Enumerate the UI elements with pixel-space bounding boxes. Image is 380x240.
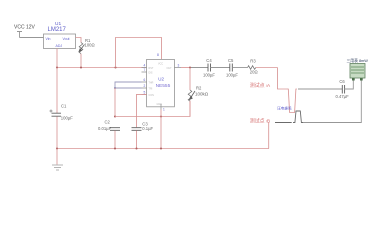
pin stub THR 6 [142, 81, 147, 83]
wire V+ rail [57, 67, 147, 69]
wire OUT pin to node [181, 67, 190, 69]
svg-text:5: 5 [144, 90, 146, 94]
wire R1 bottom to rail [80, 54, 82, 68]
wire C1 top [56, 68, 58, 114]
potentiometer R2 [188, 90, 192, 101]
svg-text:R3: R3 [250, 59, 256, 64]
instrument stripes [351, 67, 364, 73]
wire CON to C3 [137, 94, 147, 127]
capacitor C2 [110, 128, 120, 131]
node junction GND/timing [160, 115, 162, 117]
wire R3 to corner [256, 67, 278, 69]
speaker B [293, 111, 303, 123]
svg-text:DIS: DIS [149, 72, 153, 75]
svg-text:THR: THR [149, 82, 154, 85]
capacitor C3 [132, 128, 142, 131]
capacitor C1 [52, 113, 62, 116]
svg-text:R2: R2 [196, 86, 202, 91]
wire C6 to instrument left leg [345, 81, 354, 90]
svg-text:RST: RST [149, 67, 154, 70]
svg-text:C5: C5 [228, 58, 234, 63]
node junction GND/bus [160, 147, 162, 149]
node junction timing/C2 [114, 115, 116, 117]
svg-text:4: 4 [144, 64, 146, 68]
wire VCC to U1 Vin [20, 37, 44, 39]
svg-text:U2: U2 [158, 76, 164, 81]
instrument leg right [360, 78, 363, 81]
pin stub OUT 3 [174, 67, 181, 69]
node junction rail/VCC8 [114, 66, 116, 68]
svg-text:7: 7 [144, 68, 146, 72]
svg-text:0.47µF: 0.47µF [336, 94, 350, 99]
svg-text:100µF: 100µF [61, 115, 73, 120]
wire instrument right leg down to speaker B line [303, 81, 361, 123]
wire OUT node down to R2 [189, 68, 191, 91]
wire test point B down to bus [268, 123, 270, 149]
potentiometer R1 arrow [79, 45, 85, 52]
pin stub DIS 7 [142, 71, 147, 73]
wire corner down to speaker A line [278, 68, 288, 90]
svg-text:Vout: Vout [63, 37, 70, 41]
svg-text:100µF: 100µF [203, 73, 215, 78]
node junction R1/rail [80, 66, 82, 68]
wire C5 to R3 [232, 67, 247, 69]
power symbol VCC [17, 32, 22, 38]
pin stub CON 5 [142, 93, 147, 95]
wire timing node across to R2 [115, 101, 190, 117]
regulator U1 body [44, 34, 76, 49]
instrument leg left [352, 78, 355, 81]
svg-text:100Ω: 100Ω [85, 43, 95, 48]
node junction C1/bus [56, 147, 58, 149]
wire speaker A to C6 [298, 88, 342, 90]
svg-text:1: 1 [163, 108, 165, 112]
svg-text:测试点 /B: 测试点 /B [250, 118, 270, 125]
speaker A [287, 89, 297, 113]
svg-text:Vin: Vin [46, 37, 51, 41]
wire speaker B to test point B [275, 122, 292, 124]
potentiometer R1 [79, 43, 83, 54]
node junction OUT/R2 [189, 66, 191, 68]
svg-text:OUT: OUT [167, 67, 173, 70]
wire OUT node to C4 [190, 67, 208, 69]
node junction ADJ/C1 [56, 66, 58, 68]
svg-text:三用表 8mW: 三用表 8mW [347, 58, 369, 63]
timer U2 body [147, 59, 175, 106]
wire bus to ground [56, 149, 58, 165]
wire C2 bottom to bus [114, 131, 116, 149]
ground bus wire [57, 148, 269, 150]
resistor R3 [248, 66, 256, 70]
svg-text:VCC 12V: VCC 12V [14, 25, 36, 31]
capacitor C6 [342, 85, 344, 94]
svg-text:100kΩ: 100kΩ [195, 91, 209, 96]
svg-text:测试点 /A: 测试点 /A [250, 82, 271, 89]
capacitor C5 [230, 64, 233, 72]
instrument body [350, 64, 365, 79]
svg-text:8: 8 [157, 53, 159, 57]
svg-text:压电蜂鸣: 压电蜂鸣 [277, 105, 292, 110]
svg-text:C2: C2 [105, 120, 111, 125]
svg-text:C1: C1 [61, 103, 67, 108]
svg-text:3: 3 [178, 63, 180, 67]
svg-text:0.1µF: 0.1µF [142, 126, 153, 131]
pin stub GND 1 [160, 104, 162, 110]
svg-text:TRI: TRI [149, 88, 153, 91]
ground [52, 165, 63, 170]
wire C1 bottom to ground bus [56, 117, 58, 149]
wire R2 bottom to timing node [189, 101, 191, 116]
svg-text:20Ω: 20Ω [250, 69, 258, 74]
wire U1 Vout to R1 top [76, 38, 82, 43]
wire TRI node down to timing node [114, 88, 116, 117]
pin stub RST 4 [142, 67, 147, 69]
svg-text:0.01µF: 0.01µF [98, 126, 112, 131]
svg-text:LM217: LM217 [48, 27, 67, 33]
svg-text:6: 6 [144, 78, 146, 82]
capacitor C1 plus sign [50, 110, 53, 113]
wire C3 bottom to bus [136, 131, 138, 149]
svg-text:100µF: 100µF [226, 73, 238, 78]
svg-text:C4: C4 [206, 58, 212, 63]
svg-text:2: 2 [144, 84, 146, 88]
svg-text:NE555: NE555 [156, 83, 171, 89]
pin stub TRI 2 [142, 87, 147, 89]
wire rail up-over to 555 pin8 [116, 38, 162, 68]
node junction C3/bus [135, 147, 137, 149]
wire THR-TRI tie loop [115, 82, 142, 88]
wire GND pin down to bus [160, 110, 162, 149]
potentiometer R2 arrow [190, 91, 196, 100]
capacitor C4 [208, 64, 211, 72]
node junction C2/bus [114, 147, 116, 149]
svg-text:CON: CON [149, 94, 155, 97]
svg-text:VCC: VCC [158, 63, 163, 66]
wire C4 to C5 [211, 67, 230, 69]
node junction THR/TRI [114, 87, 116, 89]
svg-text:C6: C6 [339, 79, 345, 84]
svg-text:ADJ: ADJ [56, 44, 63, 48]
wire U1 ADJ down [56, 49, 58, 68]
